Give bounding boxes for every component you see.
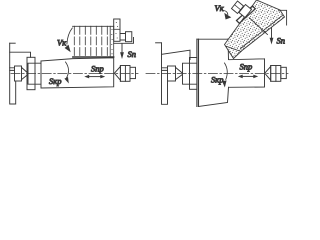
- svg-text:Sп: Sп: [128, 49, 137, 59]
- svg-text:Sпр: Sпр: [91, 64, 104, 74]
- svg-text:Sкр: Sкр: [49, 76, 61, 86]
- svg-text:Sпр: Sпр: [240, 62, 253, 72]
- svg-text:Sкр: Sкр: [211, 74, 223, 84]
- svg-text:Vк: Vк: [215, 3, 225, 13]
- svg-text:Vк: Vк: [57, 38, 67, 48]
- svg-text:Sп: Sп: [277, 36, 286, 46]
